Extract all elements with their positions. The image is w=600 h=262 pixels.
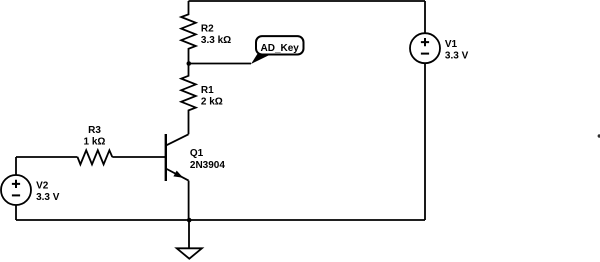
svg-text:2 kΩ: 2 kΩ	[201, 97, 223, 108]
svg-text:R3: R3	[88, 125, 101, 136]
svg-text:AD_Key: AD_Key	[261, 43, 300, 54]
resistor R1	[181, 64, 196, 135]
voltage source V2	[1, 175, 31, 205]
wire right vertical V1 top lead	[424, 1, 426, 33]
transistor Q1 base bar	[165, 134, 167, 181]
wire ground lead	[188, 220, 190, 248]
ground	[177, 248, 202, 258]
svg-text:Q1: Q1	[190, 148, 204, 159]
svg-text:3.3 V: 3.3 V	[36, 192, 60, 203]
wire base: V2 top corner through R3 to Q1 base	[16, 156, 78, 158]
svg-text:3.3 kΩ: 3.3 kΩ	[201, 35, 231, 46]
svg-text:V1: V1	[445, 39, 458, 50]
resistor R3	[78, 150, 113, 164]
svg-text:3.3 V: 3.3 V	[445, 51, 469, 62]
wire emitter down to bottom rail	[188, 181, 190, 220]
wire R3 to base bar	[112, 156, 166, 158]
svg-text:2N3904: 2N3904	[190, 160, 225, 171]
resistor R2	[181, 1, 196, 64]
node B junction dot emitter/ground on bottom rail	[187, 218, 192, 223]
wire right vertical V1 bottom lead down to bottom rail	[424, 63, 426, 220]
transistor Q1 collector diagonal	[166, 134, 189, 145]
transistor Q1 emitter diagonal	[166, 169, 189, 181]
svg-text:R1: R1	[201, 85, 214, 96]
svg-text:R2: R2	[201, 23, 214, 34]
stray mark at right edge	[598, 134, 600, 137]
svg-text:V2: V2	[36, 181, 49, 192]
net label flag AD_Key	[251, 36, 304, 64]
voltage source V1	[410, 33, 440, 63]
wire from node A to AD_Key flag	[189, 63, 252, 65]
wire top horizontal from R2 top to V1 top	[189, 0, 426, 2]
node A junction dot between R2 and R1	[187, 61, 192, 66]
svg-text:1 kΩ: 1 kΩ	[84, 136, 106, 147]
transistor Q1 emitter arrowhead	[173, 171, 183, 178]
wire V2 bottom lead	[15, 205, 17, 220]
wire V2 top lead	[15, 157, 17, 175]
wire bottom horizontal rail	[16, 219, 425, 221]
